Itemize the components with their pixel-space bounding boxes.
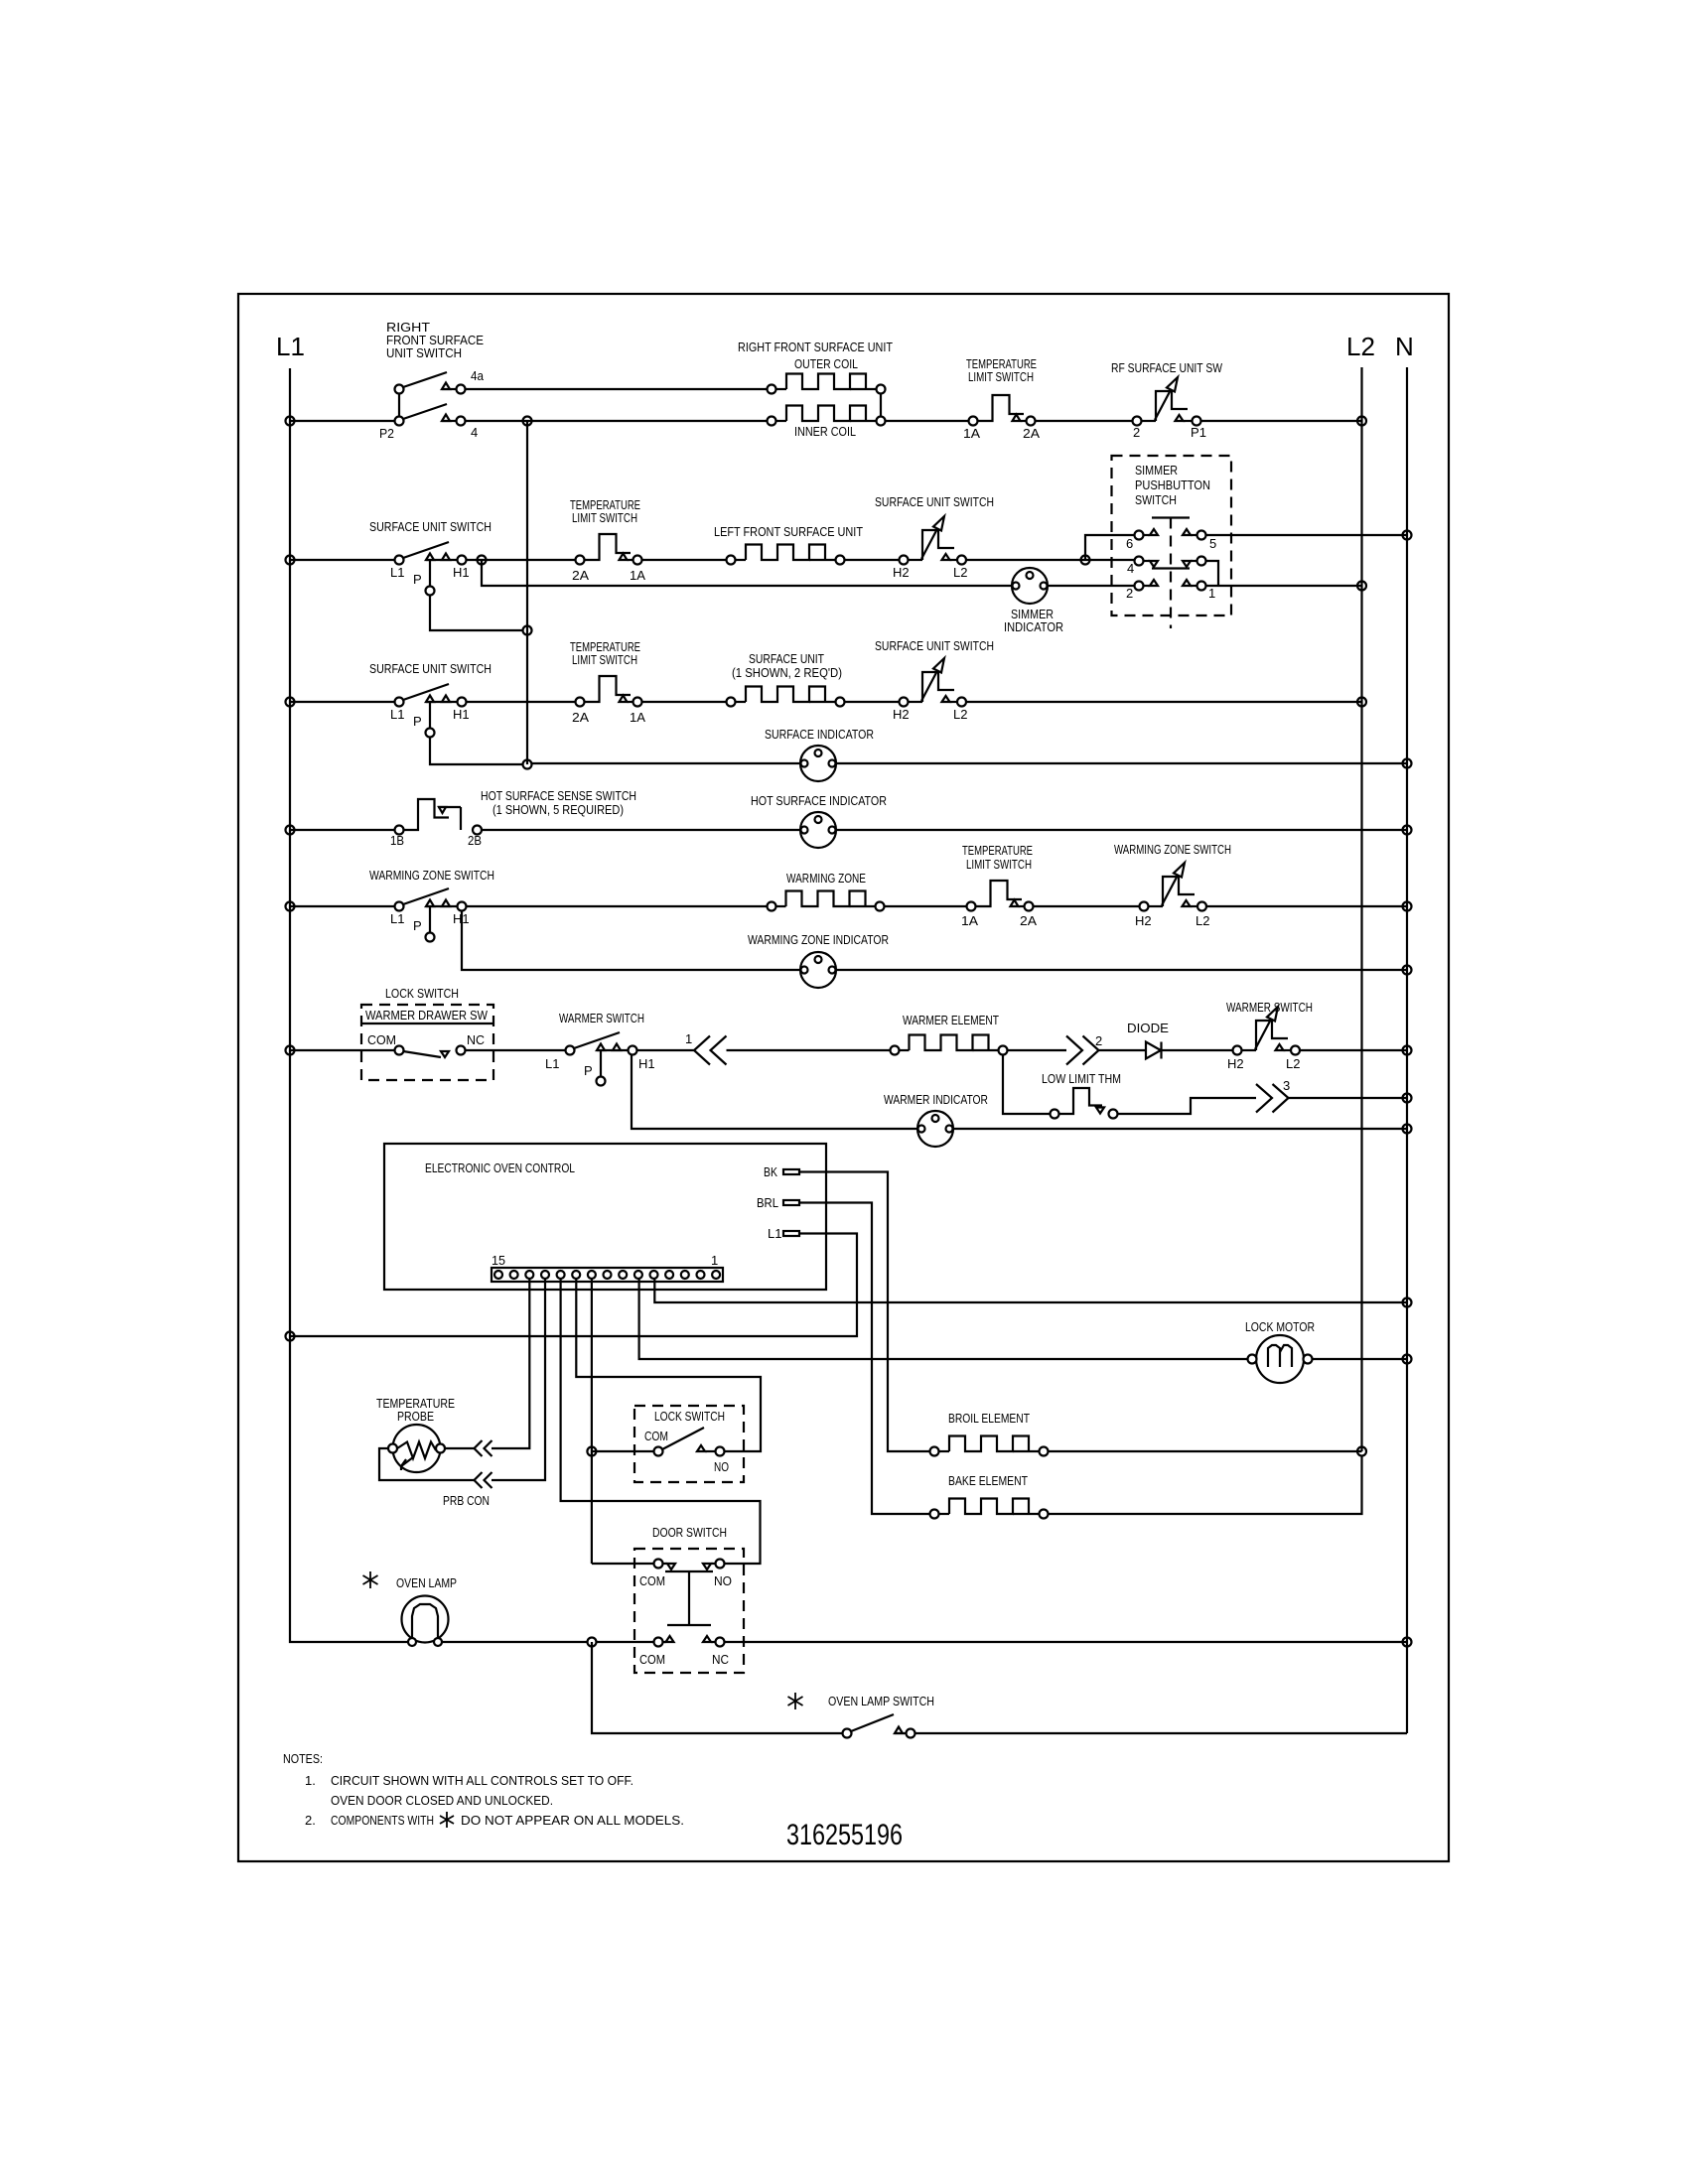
lamp warming zone indicator [800, 952, 836, 988]
wire connector 1 to warmer element [727, 1049, 891, 1051]
svg-text:COM: COM [639, 1652, 665, 1667]
svg-text:SURFACE UNIT SWITCH: SURFACE UNIT SWITCH [875, 494, 994, 509]
wire diode to warmer switch right [1162, 1049, 1233, 1051]
pin label H2 warmer [1227, 1056, 1244, 1071]
switch warming zone switch left [290, 888, 467, 942]
pin label 1 eoc [711, 1253, 718, 1268]
label warming zone [786, 871, 866, 886]
contact door switch COM-NO upper [654, 1560, 725, 1570]
svg-text:NO: NO [714, 1459, 729, 1474]
wire L1 bus vertical [290, 368, 408, 1642]
pin label 1 simmer [1208, 586, 1215, 601]
pushbutton actuator dashed stem [1170, 518, 1172, 629]
wire limit switch to left front surface unit [642, 559, 727, 561]
label surface unit row3 line1 [749, 651, 824, 666]
pin label 1A row3 [630, 710, 645, 725]
pin label 4 [471, 425, 478, 440]
pin label 15 [492, 1253, 505, 1268]
wire probe return loop [379, 1448, 475, 1480]
wire hot surface indicator to N bus [836, 829, 1407, 831]
svg-text:SURFACE UNIT: SURFACE UNIT [749, 651, 824, 666]
lamp warmer indicator [917, 1111, 953, 1147]
svg-text:COMPONENTS WITH: COMPONENTS WITH [331, 1813, 434, 1828]
svg-text:COM: COM [639, 1573, 665, 1588]
switch lock switch [654, 1428, 725, 1456]
pin label 4a [471, 368, 485, 383]
svg-text:NO: NO [714, 1573, 732, 1588]
wire simmer indicator to contact 2 [1048, 585, 1135, 587]
svg-text:LIMIT SWITCH: LIMIT SWITCH [966, 857, 1032, 872]
svg-text:DO NOT APPEAR ON ALL MODELS.: DO NOT APPEAR ON ALL MODELS. [461, 1813, 684, 1828]
svg-text:PUSHBUTTON: PUSHBUTTON [1135, 478, 1210, 492]
label note 1 line2 [331, 1793, 553, 1808]
svg-text:2.: 2. [305, 1813, 316, 1828]
wire L1 pin return to L1 bus [290, 1234, 857, 1337]
label hot surface indicator [751, 793, 887, 808]
lamp surface indicator [800, 746, 836, 781]
pin label P row3 [413, 714, 422, 729]
wire L1 to warmer drawer switch [290, 1049, 395, 1051]
label temperature limit switch row3 line1 [570, 639, 640, 654]
svg-text:2A: 2A [1023, 426, 1040, 441]
svg-text:WARMING ZONE: WARMING ZONE [786, 871, 866, 886]
svg-text:BROIL ELEMENT: BROIL ELEMENT [948, 1411, 1030, 1426]
label door switch [652, 1525, 727, 1540]
svg-text:P: P [584, 1063, 593, 1078]
svg-text:INDICATOR: INDICATOR [1004, 619, 1063, 634]
connector probe plug row1 [445, 1440, 492, 1456]
pin label L1 row2 [390, 565, 404, 580]
dashed enclosure lock switch [634, 1406, 744, 1482]
svg-text:1A: 1A [630, 710, 645, 725]
pin label 2A row3 [572, 710, 589, 725]
svg-text:1B: 1B [390, 833, 404, 848]
wire lock motor to N bus [1313, 1358, 1408, 1360]
wire pin 5 to N bus [654, 1279, 1407, 1302]
svg-text:L2: L2 [953, 565, 967, 580]
node oven lamp row junction [588, 1638, 597, 1647]
resistor right front surface unit outer coil [768, 374, 886, 394]
label surface unit switch row2 [369, 519, 492, 534]
pin label 1A warming [961, 913, 978, 928]
svg-text:L2: L2 [1346, 332, 1375, 361]
pin label 2A warming [1020, 913, 1037, 928]
dashed enclosure warmer drawer lock switch [361, 1005, 493, 1080]
connector probe plug row2 [475, 1472, 492, 1488]
wire tap junction to surface indicator [532, 762, 801, 764]
svg-text:L1: L1 [390, 565, 404, 580]
label low limit thm [1042, 1071, 1121, 1086]
svg-text:1: 1 [685, 1031, 692, 1046]
switch surface unit switch row2 right [900, 516, 967, 565]
wire simmer contact 4 to contact 1 [1206, 561, 1219, 586]
svg-text:H2: H2 [893, 565, 910, 580]
svg-text:HOT SURFACE INDICATOR: HOT SURFACE INDICATOR [751, 793, 887, 808]
page border frame [238, 294, 1449, 1861]
net label N [1395, 332, 1414, 361]
net label L1 [276, 332, 305, 361]
svg-text:1A: 1A [961, 913, 978, 928]
label probe line2 [397, 1409, 434, 1424]
label simmer pushbutton switch line2 [1135, 478, 1210, 492]
pin label 5 [1209, 536, 1216, 551]
wire tap row1 to lower rows [526, 421, 528, 764]
pin label P2 [379, 426, 394, 441]
wire oven lamp to junction [442, 1641, 588, 1643]
pin label H1 row3 [453, 707, 470, 722]
pin label BRL [757, 1195, 778, 1210]
wire row1 upper branch to outer coil [466, 388, 768, 390]
svg-text:BK: BK [764, 1164, 777, 1179]
wire coil to surface unit switch row2 [845, 559, 900, 561]
svg-text:H1: H1 [453, 911, 470, 926]
svg-text:L2: L2 [953, 707, 967, 722]
pin label H1 warming [453, 911, 470, 926]
svg-text:PROBE: PROBE [397, 1409, 434, 1424]
wire H1 to connector 1 [636, 1049, 695, 1051]
wire N bus vertical [1406, 367, 1408, 1733]
svg-text:SURFACE UNIT SWITCH: SURFACE UNIT SWITCH [369, 519, 492, 534]
pin label H2 row2 [893, 565, 910, 580]
svg-text:L2: L2 [1286, 1056, 1300, 1071]
switch surface unit switch row2 [290, 542, 467, 596]
pin label H1 warmer [638, 1056, 655, 1071]
svg-text:LEFT FRONT SURFACE UNIT: LEFT FRONT SURFACE UNIT [714, 524, 863, 539]
motor lock motor [1248, 1335, 1313, 1383]
svg-text:(1 SHOWN, 5 REQUIRED): (1 SHOWN, 5 REQUIRED) [492, 802, 624, 817]
pin label 2A row2 [572, 568, 589, 583]
label rf surface unit sw [1111, 360, 1223, 375]
svg-text:LOCK MOTOR: LOCK MOTOR [1245, 1319, 1315, 1334]
label left front surface unit [714, 524, 863, 539]
svg-text:CIRCUIT SHOWN WITH ALL CONTROL: CIRCUIT SHOWN WITH ALL CONTROLS SET TO O… [331, 1773, 633, 1788]
label temperature limit switch warming line1 [962, 843, 1033, 858]
svg-text:2A: 2A [572, 568, 589, 583]
svg-text:OUTER COIL: OUTER COIL [794, 356, 858, 371]
switch surface unit switch row3 right [900, 658, 967, 707]
label right front surface unit switch line2 [386, 333, 484, 347]
thermal switch temperature limit switch row3 [576, 676, 642, 707]
resistor left front surface unit [727, 545, 845, 565]
wire warming zone to limit switch [885, 905, 967, 907]
switch RF surface unit sw [1133, 377, 1201, 426]
label right front surface unit [738, 340, 893, 354]
svg-text:COM: COM [644, 1429, 668, 1443]
wire L2 contact to simmer switch contact 4 [966, 559, 1135, 561]
node row2 H1 tap [478, 556, 487, 565]
resistor right front surface unit inner coil [768, 406, 886, 426]
svg-text:3: 3 [1283, 1078, 1290, 1093]
label temperature limit switch warming line2 [966, 857, 1032, 872]
svg-text:WARMER SWITCH: WARMER SWITCH [559, 1011, 644, 1025]
pin label H1 row2 [453, 565, 470, 580]
label temperature limit switch row2 line1 [570, 497, 640, 512]
svg-text:6: 6 [1126, 536, 1133, 551]
wire simmer contact 1 to L2 bus [1206, 585, 1362, 587]
label simmer indicator line2 [1004, 619, 1063, 634]
label simmer pushbutton switch line1 [1135, 463, 1178, 478]
wire bake element loop to L2 junction [1049, 1456, 1362, 1515]
switch right front surface unit switch (double pole) [290, 372, 466, 426]
label temperature limit switch row2 line2 [572, 510, 637, 525]
svg-text:WARMING ZONE SWITCH: WARMING ZONE SWITCH [1114, 842, 1231, 857]
wire simmer contact 5 to N bus [1206, 534, 1408, 536]
label prb con [443, 1493, 490, 1508]
wire limit switch to surface unit [642, 701, 727, 703]
wire door switch NC to N bus [725, 1641, 1408, 1643]
resistor warming zone [768, 891, 885, 911]
wire warming zone switch to N bus [1206, 905, 1407, 907]
svg-text:316255196: 316255196 [786, 1819, 903, 1851]
contact simmer switch 4 [1135, 557, 1206, 569]
svg-text:15: 15 [492, 1253, 505, 1268]
label hot surface sense switch line2 [492, 802, 624, 817]
svg-text:LIMIT SWITCH: LIMIT SWITCH [572, 652, 637, 667]
label note 1 number [305, 1773, 316, 1788]
label diode [1127, 1021, 1169, 1035]
svg-text:L1: L1 [545, 1056, 559, 1071]
svg-text:LIMIT SWITCH: LIMIT SWITCH [572, 510, 637, 525]
label warming zone indicator [748, 932, 889, 947]
pushbutton actuator bar [1152, 516, 1190, 518]
wire junction to door switch lower row [597, 1641, 654, 1643]
svg-text:NC: NC [467, 1032, 485, 1047]
wire broil element to L2 bus [1049, 1450, 1362, 1452]
pin label H2 row3 [893, 707, 910, 722]
svg-text:(1 SHOWN, 2 REQ'D): (1 SHOWN, 2 REQ'D) [732, 665, 842, 680]
wire L1 to hot surface sense switch [290, 829, 395, 831]
svg-text:LOW LIMIT THM: LOW LIMIT THM [1042, 1071, 1121, 1086]
lamp hot surface indicator [800, 812, 836, 848]
connector plug 1 [694, 1036, 727, 1065]
net label L2 [1346, 332, 1375, 361]
switch surface unit switch row3 [290, 684, 467, 738]
dashed enclosure simmer pushbutton switch [1112, 456, 1232, 615]
wire pin 13 to temperature probe [492, 1279, 529, 1448]
resistor broil element [930, 1436, 1049, 1456]
svg-text:OVEN LAMP: OVEN LAMP [396, 1575, 457, 1590]
svg-text:H1: H1 [638, 1056, 655, 1071]
wire warmer indicator to N bus [953, 1128, 1407, 1130]
svg-text:P: P [413, 918, 422, 933]
contact simmer switch 6-5 [1135, 529, 1206, 540]
pin label 1A row2 [630, 568, 645, 583]
label lock switch warmer drawer [385, 986, 459, 1001]
pin L1 [783, 1231, 799, 1236]
pin BRL [783, 1200, 799, 1205]
asterisk oven lamp note marker [363, 1571, 378, 1588]
label temperature limit switch row1 line2 [968, 369, 1034, 384]
wire surface indicator to N bus [836, 762, 1407, 764]
node L1 bus junctions [286, 417, 295, 1341]
lamp simmer indicator [1012, 568, 1048, 604]
svg-text:LIMIT SWITCH: LIMIT SWITCH [968, 369, 1034, 384]
diode warmer circuit [1146, 1042, 1162, 1059]
label warming zone switch left [369, 868, 494, 883]
node row1 tap junction [523, 417, 532, 426]
wire pin 6 to lock motor [639, 1279, 1248, 1359]
label note 1 line1 [331, 1773, 633, 1788]
svg-text:2A: 2A [1020, 913, 1037, 928]
label note 2 part1 [331, 1813, 434, 1828]
wire coil output junction [881, 394, 969, 422]
svg-text:ELECTRONIC OVEN CONTROL: ELECTRONIC OVEN CONTROL [425, 1160, 575, 1175]
svg-text:4: 4 [471, 425, 478, 440]
svg-text:WARMER DRAWER SW: WARMER DRAWER SW [365, 1008, 489, 1023]
label electronic oven control [425, 1160, 575, 1175]
wire oven lamp switch to N bus [915, 1732, 1408, 1734]
thermal switch temperature limit switch row2 [576, 534, 642, 565]
label note 2 part2 [461, 1813, 684, 1828]
svg-text:1: 1 [711, 1253, 718, 1268]
label part number 316255196 [786, 1819, 903, 1851]
svg-text:NOTES:: NOTES: [283, 1751, 323, 1766]
label temperature probe line1 [376, 1396, 455, 1411]
svg-text:TEMPERATURE: TEMPERATURE [962, 843, 1033, 858]
svg-text:1: 1 [1208, 586, 1215, 601]
svg-text:1A: 1A [630, 568, 645, 583]
svg-text:SURFACE UNIT SWITCH: SURFACE UNIT SWITCH [875, 638, 994, 653]
svg-text:OVEN LAMP SWITCH: OVEN LAMP SWITCH [828, 1694, 934, 1708]
wire pin 12 to probe return [492, 1279, 545, 1480]
svg-text:L2: L2 [1196, 913, 1209, 928]
svg-text:LOCK SWITCH: LOCK SWITCH [385, 986, 459, 1001]
svg-text:LOCK SWITCH: LOCK SWITCH [654, 1409, 725, 1424]
svg-text:DOOR SWITCH: DOOR SWITCH [652, 1525, 727, 1540]
label connector 2 [1095, 1033, 1102, 1048]
wire BK pin to broil element [799, 1172, 930, 1452]
node tap column row2 P junction [523, 626, 532, 635]
svg-text:H1: H1 [453, 707, 470, 722]
pin label L2 row3 [953, 707, 967, 722]
resistor bake element [930, 1499, 1049, 1519]
label right front surface unit switch line1 [386, 320, 430, 335]
pin label COM door upper [639, 1573, 665, 1588]
label surface unit switch row2 right [875, 494, 994, 509]
label simmer pushbutton switch line3 [1135, 492, 1177, 507]
sensor temperature probe [388, 1425, 445, 1472]
wire P1 to L2 bus [1201, 420, 1362, 422]
switch hot surface sense switch [395, 799, 483, 835]
connector plug 2 [1066, 1036, 1099, 1065]
connector strip electronic oven control [492, 1268, 723, 1282]
switch warmer switch left [566, 1032, 637, 1086]
svg-text:5: 5 [1209, 536, 1216, 551]
label right front surface unit switch line3 [386, 345, 462, 360]
switch warming zone switch right [1140, 863, 1207, 911]
wire drawer switch NC to warmer switch [466, 1049, 566, 1051]
dashed enclosure door switch [634, 1549, 744, 1673]
switch warmer switch right [1233, 1007, 1301, 1055]
svg-text:P1: P1 [1191, 425, 1206, 440]
svg-text:2: 2 [1095, 1033, 1102, 1048]
wire limit switch to warming zone switch right [1034, 905, 1140, 907]
svg-text:WARMING ZONE INDICATOR: WARMING ZONE INDICATOR [748, 932, 889, 947]
asterisk note 2 marker [440, 1812, 454, 1828]
label note 2 number [305, 1813, 316, 1828]
svg-text:PRB CON: PRB CON [443, 1493, 490, 1508]
wire junction up to simmer contact 6 [1085, 535, 1135, 560]
svg-text:L1: L1 [276, 332, 305, 361]
connector plug 3 [1256, 1084, 1289, 1113]
svg-text:2: 2 [1126, 586, 1133, 601]
svg-text:H2: H2 [1227, 1056, 1244, 1071]
label warmer element [903, 1013, 999, 1027]
svg-text:SURFACE UNIT SWITCH: SURFACE UNIT SWITCH [369, 661, 492, 676]
svg-text:NC: NC [712, 1652, 729, 1667]
pin label COM drawer [367, 1032, 396, 1047]
node L2 bus junctions [1357, 417, 1366, 707]
svg-text:BRL: BRL [757, 1195, 778, 1210]
wire junction down to oven lamp switch [592, 1642, 843, 1733]
svg-text:RIGHT FRONT SURFACE UNIT: RIGHT FRONT SURFACE UNIT [738, 340, 893, 354]
wire low limit thm to connector 3 [1118, 1098, 1257, 1114]
svg-text:BAKE ELEMENT: BAKE ELEMENT [948, 1473, 1028, 1488]
wire pin 9 to lock switch COM and door switch COM [592, 1279, 654, 1564]
wire connector 2 to diode [1099, 1049, 1147, 1051]
node simmer feed junction [1081, 556, 1090, 565]
label warmer switch left [559, 1011, 644, 1025]
contact door switch COM-NC lower [654, 1636, 725, 1647]
svg-text:WARMER INDICATOR: WARMER INDICATOR [884, 1092, 988, 1107]
pin label COM lock [644, 1429, 668, 1443]
svg-text:COM: COM [367, 1032, 396, 1047]
wire coil to surface unit switch row3 [845, 701, 900, 703]
wire pin 11 to door switch NO [561, 1279, 761, 1564]
svg-text:L1: L1 [390, 911, 404, 926]
wire row1 lower branch to inner coil [466, 420, 768, 422]
pin label P row2 [413, 572, 422, 587]
pin label 2 simmer [1126, 586, 1133, 601]
pin label P1 [1191, 425, 1206, 440]
wire H1 row2 to limit switch [467, 559, 576, 561]
resistor warmer element [891, 1035, 1008, 1055]
node broil bake L2 junction [1357, 1447, 1366, 1456]
pin label NO door [714, 1573, 732, 1588]
label oven lamp [396, 1575, 457, 1590]
label warmer switch right [1226, 1000, 1313, 1015]
svg-text:2B: 2B [468, 833, 482, 848]
label outer coil [794, 356, 858, 371]
svg-text:H2: H2 [1135, 913, 1152, 928]
actuator link door switch [665, 1571, 713, 1625]
svg-text:HOT SURFACE SENSE SWITCH: HOT SURFACE SENSE SWITCH [481, 788, 636, 803]
pin label L2 warming [1196, 913, 1209, 928]
pin label NO lock [714, 1459, 729, 1474]
svg-text:P2: P2 [379, 426, 394, 441]
label warmer drawer sw [365, 1008, 489, 1023]
label broil element [948, 1411, 1030, 1426]
wire L2 contact row3 to L2 bus [966, 701, 1362, 703]
switch oven lamp switch [843, 1714, 915, 1738]
wire row2 P contact to tap column [430, 596, 523, 631]
wire warmer element tap down to low limit thm [1003, 1055, 1051, 1115]
svg-text:WARMER ELEMENT: WARMER ELEMENT [903, 1013, 999, 1027]
pin label 1B [390, 833, 404, 848]
switch warmer drawer sw [395, 1046, 466, 1058]
label surface unit switch row3 [369, 661, 492, 676]
pin label 1A row1 [963, 426, 980, 441]
label lock switch [654, 1409, 725, 1424]
pin label L1 warming [390, 911, 404, 926]
thermal switch temperature limit switch warming zone [967, 881, 1034, 911]
wire sense switch to hot surface indicator [482, 829, 800, 831]
svg-text:WARMING ZONE SWITCH: WARMING ZONE SWITCH [369, 868, 494, 883]
pin label P warming [413, 918, 422, 933]
svg-text:WARMER SWITCH: WARMER SWITCH [1226, 1000, 1313, 1015]
thermal switch temperature limit switch row1 [969, 395, 1036, 426]
wire warming zone indicator to N bus [836, 969, 1407, 971]
